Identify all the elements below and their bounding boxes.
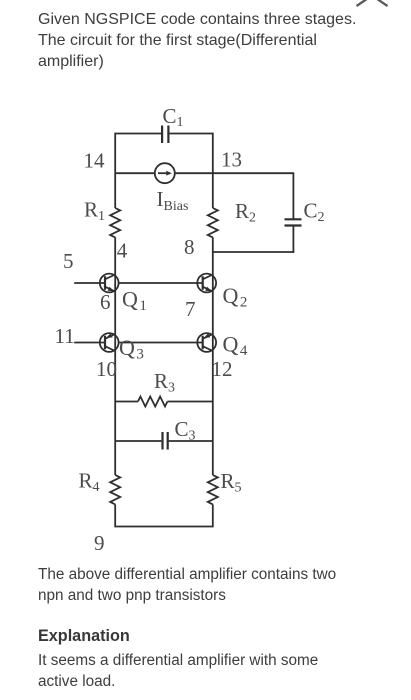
wire C3 left lead xyxy=(115,440,161,442)
wire right vertical top (node 13) xyxy=(212,133,214,208)
wire left vertical bottom xyxy=(114,504,116,526)
wire R3 right lead xyxy=(167,401,212,403)
transistor Q3 xyxy=(100,333,119,352)
wire top-left horizontal to C1 xyxy=(115,133,161,135)
resistor R1 xyxy=(110,208,120,237)
wire Q3 to Q4 base xyxy=(119,342,203,344)
svg-text:R1: R1 xyxy=(84,198,105,225)
svg-text:Q3: Q3 xyxy=(119,335,144,363)
wire node 11 to Q3 base xyxy=(74,342,105,344)
svg-text:R4: R4 xyxy=(79,469,100,496)
svg-text:R5: R5 xyxy=(221,469,242,496)
wire top-right horizontal from C1 xyxy=(170,133,213,135)
capacitor C3 xyxy=(163,432,168,450)
wire node 8 to C2 bottom xyxy=(213,251,294,253)
wire left vertical node 4 xyxy=(114,237,116,475)
wire IBias to node-13 and C2 branch xyxy=(175,172,294,174)
resistor R5 xyxy=(208,475,218,504)
svg-text:8: 8 xyxy=(184,235,195,259)
svg-text:Q1: Q1 xyxy=(122,287,147,315)
wire bottom (node 9) xyxy=(114,526,213,528)
svg-text:R3: R3 xyxy=(154,369,175,396)
wire right vertical bottom xyxy=(212,504,214,526)
wire C2 branch upper xyxy=(292,172,294,219)
wire left vertical top (node 14) xyxy=(114,133,116,208)
svg-text:9: 9 xyxy=(94,531,105,555)
wire node 5 to Q1 base xyxy=(74,282,105,284)
wire R3 left lead xyxy=(115,401,138,403)
svg-text:R2: R2 xyxy=(235,199,256,226)
question text xyxy=(38,9,356,72)
svg-text:6: 6 xyxy=(100,290,111,314)
svg-text:C1: C1 xyxy=(163,104,184,130)
svg-text:14: 14 xyxy=(84,149,106,173)
svg-text:13: 13 xyxy=(221,148,242,172)
capacitor C1 xyxy=(162,126,168,144)
explanation heading xyxy=(38,626,130,647)
wire node-14 horizontal to IBias xyxy=(115,172,155,174)
answer text xyxy=(38,564,336,606)
current source IBias xyxy=(155,163,175,183)
wire right vertical node 8 xyxy=(212,237,214,475)
svg-text:4: 4 xyxy=(117,239,128,263)
explanation text xyxy=(38,650,318,692)
wire Q1 to Q2 base xyxy=(119,282,203,284)
svg-text:Q4: Q4 xyxy=(223,332,248,360)
svg-text:C2: C2 xyxy=(304,199,325,226)
svg-text:IBias: IBias xyxy=(157,187,189,214)
capacitor C2 xyxy=(285,219,302,225)
transistor Q2 xyxy=(197,274,216,293)
svg-text:10: 10 xyxy=(96,357,117,381)
transistor Q4 xyxy=(197,333,216,352)
resistor R3 xyxy=(138,397,167,407)
close icon X (partially cut at top) xyxy=(357,0,388,6)
svg-text:11: 11 xyxy=(55,324,75,348)
wire C3 right lead xyxy=(169,440,213,442)
resistor R2 xyxy=(208,208,218,237)
svg-text:5: 5 xyxy=(63,249,74,273)
svg-text:12: 12 xyxy=(212,357,233,381)
svg-text:Q2: Q2 xyxy=(223,283,248,311)
resistor R4 xyxy=(110,475,120,504)
svg-text:7: 7 xyxy=(185,297,196,321)
svg-text:C3: C3 xyxy=(175,417,196,444)
transistor Q1 xyxy=(100,274,119,293)
wire C2 branch lower xyxy=(292,226,294,253)
